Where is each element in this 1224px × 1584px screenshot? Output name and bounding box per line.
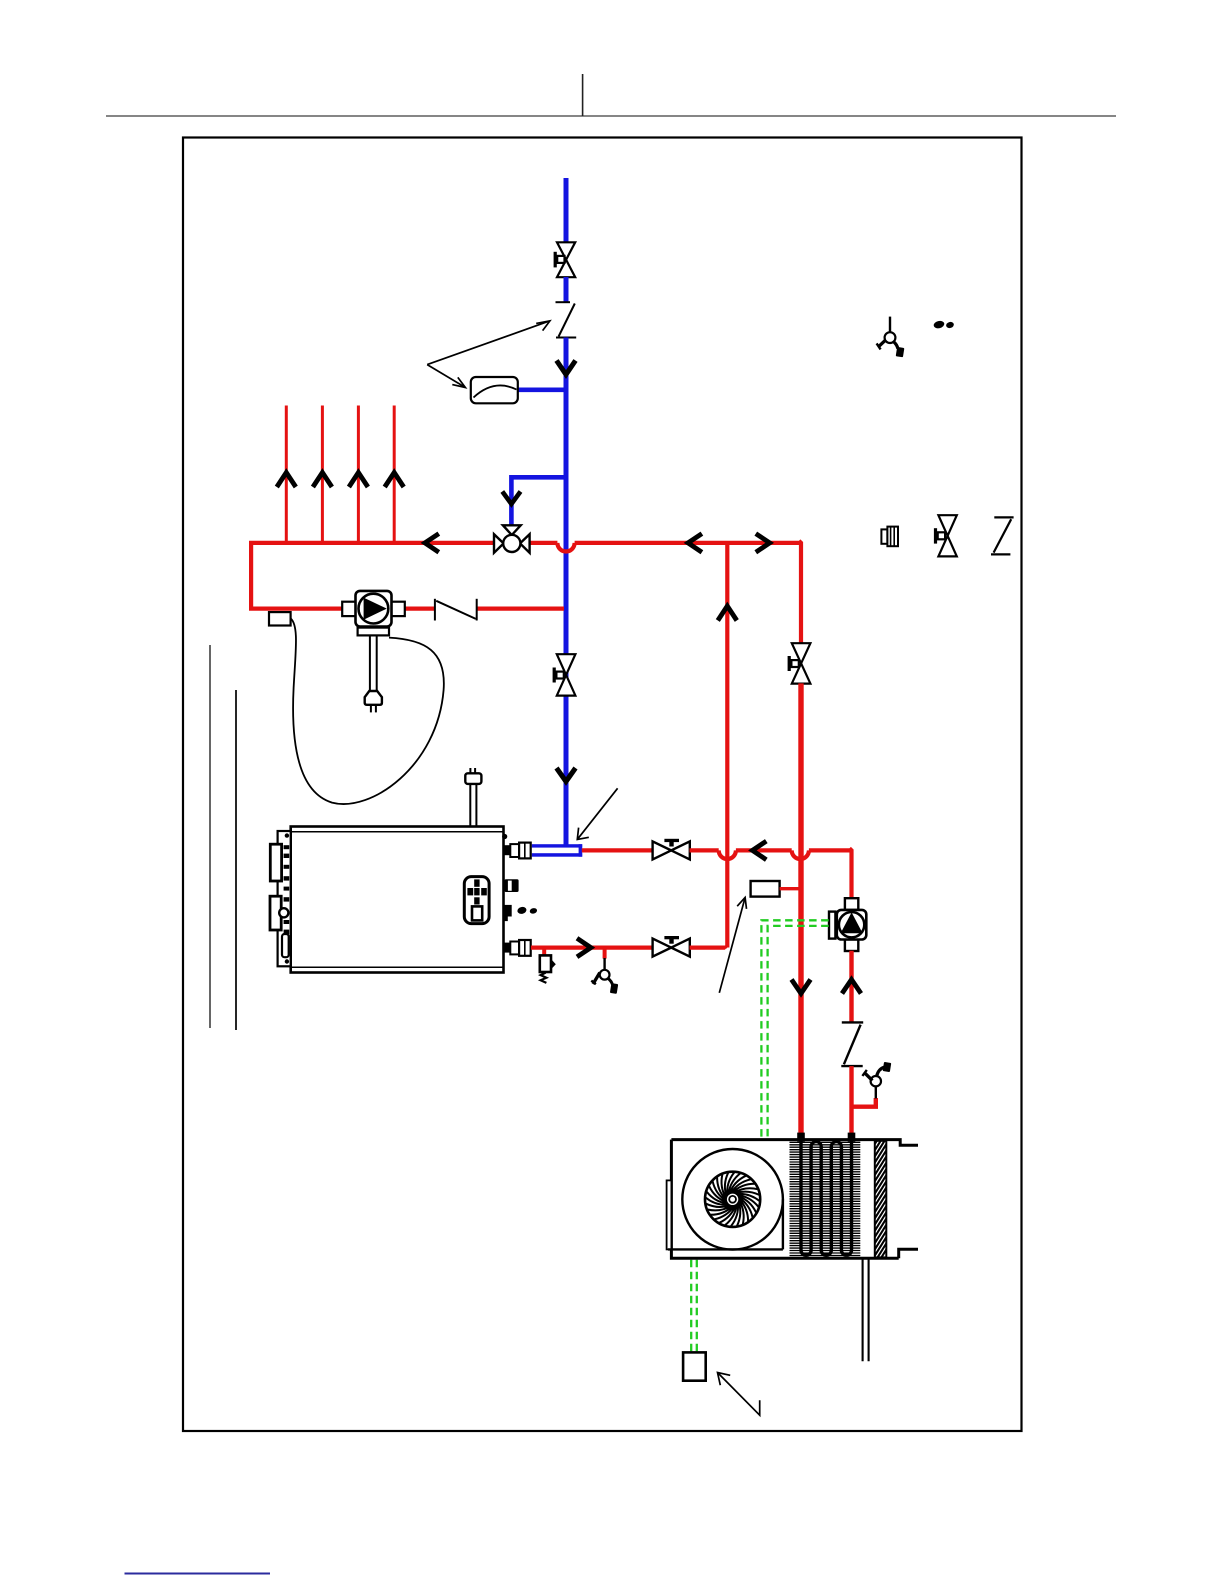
wire: cold water main between valve and break [564, 277, 569, 303]
boiler sensor pocket marks [517, 906, 538, 915]
boiler return fitting F2 [504, 940, 530, 956]
boiler top right stud [502, 834, 507, 839]
leader arrows from note to break and gauge [427, 321, 550, 388]
boiler flow fitting F1 [504, 843, 530, 859]
leader arrow to terminal box [718, 1373, 760, 1416]
boiler control panel [464, 877, 489, 924]
radiator riser 2 [321, 406, 324, 545]
boiler left knob circle [279, 908, 288, 917]
radiator riser 3 [357, 406, 360, 545]
boiler middle knob with slot [504, 879, 518, 892]
boiler left detail studs [284, 833, 290, 963]
evaporator coil fins [790, 1142, 861, 1255]
left reference line b [235, 690, 237, 1030]
drain valve D2 near heat pump [862, 1062, 891, 1099]
valve V4 on heat pump supply leg [788, 643, 811, 683]
radiator riser 1 [285, 406, 288, 545]
flow arrow right on header toward heat pump leg [756, 534, 770, 553]
wire: boiler return riser x727 [725, 543, 729, 948]
pump P1 plug prongs [371, 705, 376, 712]
wire: middle heating line break to blue main [476, 606, 564, 610]
header tick [582, 74, 584, 116]
drawing frame [183, 138, 1022, 1432]
pipe hop over riser x727 [719, 850, 736, 859]
pump control cable [291, 619, 444, 804]
heat pump casing top and brackets [671, 1140, 918, 1259]
pipe break symbol B4 on middle line [435, 599, 477, 621]
legend union fitting [881, 527, 898, 547]
wire: boiler return valve to riser elbow [690, 946, 728, 948]
valve V3 on boiler flow pipe [653, 839, 690, 860]
wire: safety valve stub [542, 948, 546, 958]
side hatch strip [875, 1126, 887, 1268]
left reference line a [209, 645, 211, 1028]
valve V1 on cold water main [554, 242, 576, 277]
legend sensor marks [933, 320, 955, 330]
blower volute [668, 1149, 783, 1250]
flow arrow down on cold main [557, 361, 576, 375]
flow arrow up riser 4 [385, 473, 404, 488]
wire: branch to pressure gauge [517, 387, 566, 392]
fan blades [706, 1172, 760, 1226]
coil pipe caps [797, 1133, 855, 1142]
flow arrow left on header [425, 534, 439, 553]
wire: boiler top red pipe to valve [582, 848, 654, 852]
flow arrow up riser 2 [313, 473, 332, 488]
boiler left bracket 2 [270, 896, 281, 930]
pipe break symbol B2 on heat pump return [841, 1022, 863, 1066]
boiler inner top line [291, 831, 504, 833]
flow arrow up riser 1 [277, 473, 296, 488]
boiler lower knob [504, 905, 511, 921]
footer link underline [125, 1573, 271, 1575]
wire: middle heating line pump to break [404, 606, 436, 610]
boiler plug prongs [470, 768, 475, 773]
wire: cold water main vertical top segment [564, 178, 569, 244]
leader arrow to sensor [719, 897, 746, 992]
legend shutoff valve [934, 515, 957, 556]
pump P1 stem [370, 635, 377, 691]
wire: header right section with elbow into heat pump leg [575, 541, 801, 644]
drain valve D1 [591, 958, 618, 994]
legend pipe break symbol [991, 517, 1014, 554]
wire: heating header with left elbow down to pump line [249, 543, 557, 609]
flow arrow left on header right section [688, 534, 702, 553]
valve V2 on cold water main [553, 654, 576, 695]
flow arrow up riser 3 [349, 473, 368, 488]
flow arrow down on cold main lower [557, 768, 576, 782]
wire: heat pump return below pump [849, 951, 853, 1023]
green control cable pair upper [761, 920, 828, 1138]
flow arrow up on riser x727 [718, 606, 737, 621]
pressure gauge / meter [471, 377, 518, 403]
boiler body [291, 827, 504, 973]
condensate drain lines [863, 1258, 869, 1361]
boiler power cord [470, 784, 476, 827]
outdoor sensor terminal box [683, 1352, 706, 1380]
valve V5 on boiler return [653, 936, 690, 957]
boiler left bracket 1 [270, 844, 281, 881]
radiator riser 4 [393, 406, 396, 545]
evaporator serpentine tubes [801, 1134, 852, 1255]
pump P1 plug [365, 691, 382, 705]
flow arrow down on mixing branch [502, 492, 520, 505]
heat pump left step panel [667, 1180, 672, 1249]
heat pump circuit pump P2 [837, 898, 867, 951]
flow arrow down on heat pump supply [792, 980, 811, 994]
wire: heat pump return lower segment with drain tee [852, 1066, 876, 1133]
thermostat box for pump cable [269, 612, 291, 625]
leader arrow to boiler inlet junction [577, 788, 617, 839]
legend drain valve D3 [877, 317, 905, 358]
boiler power plug [465, 773, 481, 784]
wire: boiler flow pipe valve to first hop [690, 848, 719, 852]
safety valve [540, 955, 556, 983]
wire: drain stub on boiler return [603, 948, 607, 959]
wire: boiler flow pipe between hops [736, 848, 792, 852]
wire: heat pump supply leg lower thick [798, 683, 803, 1133]
pipe break symbol B1 [556, 302, 577, 337]
green control cable pair lower [691, 1260, 697, 1353]
pipe hop over blue main [557, 543, 574, 552]
wire: boiler return pipe [531, 945, 654, 949]
wire: branch to mixing valve [511, 477, 566, 525]
page header rule [106, 115, 1116, 117]
wire: boiler flow pipe elbow into heat pump return [809, 848, 852, 898]
flow arrow left on boiler flow pipe [752, 841, 766, 860]
flow arrow up on heat pump return [842, 980, 861, 994]
flow arrow right on boiler return [577, 938, 591, 957]
boiler left mounting plate [278, 831, 291, 966]
blue fork connection at boiler inlet [532, 844, 582, 857]
boiler left lower slot [282, 934, 289, 957]
three way mixing valve [494, 525, 530, 553]
pump P2 side terminal bar [829, 912, 835, 939]
wire: cold water main long segment [564, 338, 569, 847]
pipe hop over heat pump supply leg [792, 850, 809, 859]
temperature sensor on heat pump supply [751, 881, 799, 897]
heating circuit pump P1 [342, 591, 405, 627]
fan hub [705, 1172, 760, 1227]
pump P1 base flange [358, 628, 389, 636]
boiler inner bottom line [291, 966, 504, 968]
